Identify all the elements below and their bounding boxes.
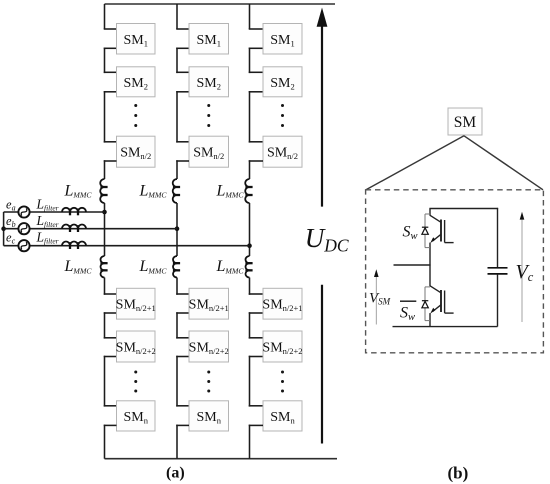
submodule SM1 phase B: [189, 24, 229, 55]
wire: phase C SMn to bottom bus: [249, 424, 263, 426]
wire: phase C SMn/2 to arm inductor: [249, 160, 263, 162]
svg-text:LMMC: LMMC: [139, 182, 168, 199]
source e_b: [18, 223, 29, 234]
svg-text:LMMC: LMMC: [64, 258, 93, 275]
wire: SM output lower terminal / bottom rail: [393, 326, 498, 328]
svg-text:Lfilter: Lfilter: [36, 213, 59, 229]
submodule SMn phase B: [189, 401, 229, 431]
wire: phase C lower link 2: [249, 356, 263, 358]
svg-text:LMMC: LMMC: [216, 182, 245, 199]
wire: phase C link 2-n/2: [249, 91, 263, 93]
capacitor C (V_c): [488, 267, 508, 269]
submodule SM2 phase A: [117, 67, 156, 97]
node neutral-phase b junction: [1, 226, 6, 231]
inductor L_MMC upper arm phase B: [173, 179, 177, 203]
wire: phase C link 1-2: [249, 47, 263, 49]
ellipsis dots upper arm phase C: [281, 104, 284, 107]
submodule SMn phase A: [117, 401, 156, 431]
submodule SMn/2+1 phase C: [263, 288, 302, 319]
wire: phase A link 2-n/2: [104, 91, 117, 93]
svg-text:VSM: VSM: [369, 291, 391, 307]
wire: top rail: [429, 208, 498, 210]
inductor L_MMC upper arm phase C: [245, 179, 249, 203]
wire: phase C top bus drop to SM1: [249, 4, 251, 29]
svg-text:ec: ec: [6, 231, 16, 246]
submodule SMn/2+2 phase B: [189, 331, 229, 362]
wire: phase B inductor to SMn/2+1: [176, 278, 178, 295]
label S_w-bar: [400, 300, 416, 302]
ellipsis dots upper arm phase B: [207, 104, 210, 107]
diode branch upper: [425, 213, 430, 215]
submodule SMn/2+2 phase C: [263, 331, 302, 362]
submodule SM1 phase C: [263, 24, 302, 55]
wire: phase B SMn/2 to arm inductor: [176, 160, 189, 162]
inductor L_filter phase b: [62, 225, 86, 229]
svg-text:Lfilter: Lfilter: [36, 230, 59, 246]
submodule SM2 phase C: [263, 67, 302, 97]
wire: phase B link 2-n/2: [176, 91, 189, 93]
inductor L_MMC upper arm phase A: [100, 179, 104, 203]
inductor L_filter phase a: [62, 208, 86, 212]
wire: phase C lower link 1: [249, 312, 263, 314]
source e_a: [18, 206, 29, 217]
inductor L_MMC lower arm phase C: [245, 256, 249, 278]
arrow U_DC head: [317, 8, 328, 27]
callout line right: [464, 136, 543, 190]
svg-text:LMMC: LMMC: [64, 182, 93, 199]
submodule SMn/2 phase B: [189, 136, 229, 167]
wire: bottom DC bus: [105, 458, 338, 460]
wire: phase c AC line: [4, 245, 250, 247]
arrow V_SM: [375, 277, 377, 325]
svg-text:LMMC: LMMC: [139, 258, 168, 275]
source e_c: [18, 240, 29, 251]
inductor L_filter phase c: [62, 242, 86, 246]
svg-text:Vc: Vc: [516, 261, 534, 284]
svg-text:(a): (a): [166, 465, 185, 482]
arrow U_DC shaft upper segment: [321, 24, 323, 207]
arrow V_c: [521, 219, 523, 322]
SM block box: [448, 108, 482, 135]
arrow U_DC shaft lower segment: [321, 285, 323, 444]
wire: phase a AC line: [4, 211, 105, 213]
wire: SM output upper terminal: [394, 264, 431, 266]
wire: phase A lower link 1: [104, 312, 117, 314]
wire: phase A top bus drop to SM1: [104, 4, 106, 29]
node phase C AC junction: [247, 243, 252, 248]
wire: phase B SMn to bottom bus: [176, 424, 189, 426]
ellipsis dots upper arm phase A: [134, 104, 137, 107]
callout line left: [366, 136, 464, 190]
wire: capacitor branch bottom: [497, 274, 499, 326]
node phase B AC junction: [175, 226, 180, 231]
wire: phase A SMn/2 to arm inductor: [104, 160, 117, 162]
wire: phase C arm midpoint: [249, 203, 251, 256]
svg-text:Sw: Sw: [400, 305, 415, 324]
svg-text:(b): (b): [448, 464, 469, 483]
svg-text:LMMC: LMMC: [216, 258, 245, 275]
inductor L_MMC lower arm phase B: [173, 256, 177, 278]
submodule SM2 phase B: [189, 67, 229, 97]
ellipsis dots lower arm phase C: [281, 371, 284, 374]
wire: phase A SMn to bottom bus: [104, 424, 117, 426]
svg-text:SM: SM: [454, 114, 477, 131]
svg-text:eb: eb: [6, 214, 16, 229]
wire: phase B arm midpoint: [176, 203, 178, 256]
ellipsis dots lower arm phase A: [134, 371, 137, 374]
submodule SM1 phase A: [117, 24, 156, 55]
wire: phase A link 1-2: [104, 47, 117, 49]
wire: capacitor branch top: [497, 208, 499, 267]
wire: phase B link 1-2: [176, 47, 189, 49]
submodule SMn/2+1 phase B: [189, 288, 229, 319]
submodule SMn phase C: [263, 401, 302, 431]
svg-text:Sw: Sw: [403, 223, 418, 242]
wire: phase B lower link 1: [176, 312, 189, 314]
submodule SMn/2 phase A: [117, 136, 156, 167]
wire: neutral bus vertical: [3, 212, 5, 246]
wire: phase A inductor to SMn/2+1: [104, 278, 106, 295]
svg-text:Lfilter: Lfilter: [36, 196, 59, 212]
transistor S_w-bar (lower IGBT): [429, 265, 431, 286]
wire: phase b AC line: [4, 228, 177, 230]
wire: top DC bus: [105, 3, 336, 5]
svg-text:UDC: UDC: [305, 223, 349, 256]
transistor S_w (upper IGBT): [429, 209, 431, 216]
wire: phase A lower link 2: [104, 356, 117, 358]
dashed submodule boundary: [366, 190, 544, 353]
wire: phase A arm midpoint: [104, 203, 106, 256]
wire: phase B lower link 2: [176, 356, 189, 358]
submodule SMn/2 phase C: [263, 136, 302, 167]
submodule SMn/2+2 phase A: [117, 331, 156, 362]
svg-text:ea: ea: [6, 197, 16, 212]
inductor L_MMC lower arm phase A: [100, 256, 104, 278]
diode branch lower: [425, 286, 430, 288]
ellipsis dots lower arm phase B: [207, 371, 210, 374]
wire: phase B top bus drop to SM1: [176, 4, 178, 29]
wire: phase C inductor to SMn/2+1: [249, 278, 251, 295]
submodule SMn/2+1 phase A: [117, 288, 156, 319]
node phase A AC junction: [102, 210, 107, 215]
